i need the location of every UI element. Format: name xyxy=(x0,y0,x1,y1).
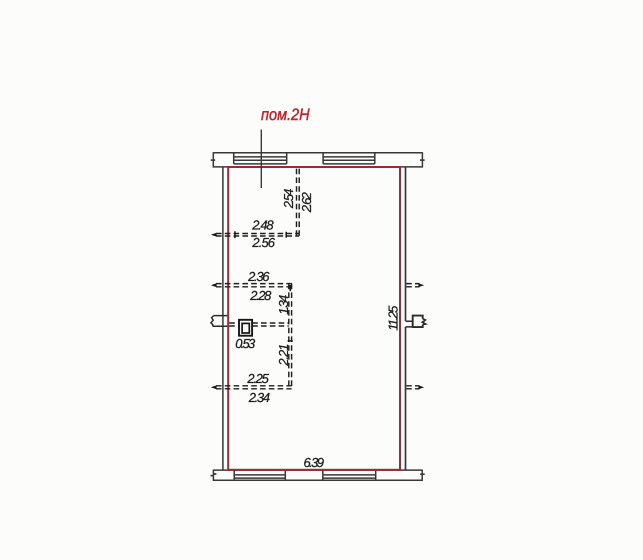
svg-text:2.62: 2.62 xyxy=(299,191,314,213)
tick on partition mid xyxy=(288,340,293,342)
svg-text:2.28: 2.28 xyxy=(249,288,272,303)
dimension texts xyxy=(235,189,401,471)
bottom wall left end tick xyxy=(211,474,217,476)
left wall line xyxy=(222,168,224,470)
arrow left 2.36 xyxy=(211,283,217,287)
svg-text:2.48: 2.48 xyxy=(251,217,274,232)
svg-text:2.56: 2.56 xyxy=(251,235,275,250)
niche in left wall xyxy=(211,316,229,327)
svg-text:0.53: 0.53 xyxy=(235,336,256,351)
right stub at 2.25 level xyxy=(406,386,419,389)
right wall line xyxy=(405,168,407,470)
bottom wall band outline xyxy=(213,470,422,482)
arrow right at 2.25 level xyxy=(418,385,424,389)
top wall left end tick xyxy=(211,159,216,161)
dimension ticks xyxy=(235,231,293,341)
tick on 2.48 line near wall xyxy=(234,231,236,238)
svg-text:1.34: 1.34 xyxy=(276,295,291,315)
dashed partition 2.54/2.62 xyxy=(297,169,300,236)
niche in right wall xyxy=(406,316,426,328)
arrow left 2.48 xyxy=(211,233,217,237)
top wall right end tick xyxy=(420,159,425,161)
top wall band outline xyxy=(213,152,422,167)
svg-text:2.36: 2.36 xyxy=(247,269,270,284)
tick at partition top corner xyxy=(289,285,291,291)
svg-text:2.54: 2.54 xyxy=(281,189,296,210)
tick on 2.48 line right xyxy=(285,232,287,238)
red premise outline xyxy=(228,167,400,470)
dashed partition 1.34/2.21 xyxy=(289,284,292,389)
dim line 2.25/2.34 xyxy=(216,386,292,389)
duct box right wall xyxy=(413,316,423,328)
window W3 bottom wall xyxy=(234,470,285,480)
dimension arrows xyxy=(211,233,424,389)
window W2 top wall xyxy=(323,153,375,164)
leader line xyxy=(260,130,262,189)
arrow left 2.25 xyxy=(211,385,217,389)
break zigzag left niche xyxy=(211,316,214,327)
window W4 bottom wall xyxy=(323,470,376,480)
ventilation duct symbol xyxy=(239,320,252,336)
svg-text:2.25: 2.25 xyxy=(246,371,269,386)
dim line 2.36/2.28 xyxy=(216,284,292,287)
svg-text:пом.2Н: пом.2Н xyxy=(261,106,310,124)
break zigzag right niche xyxy=(422,319,425,325)
dashed double lines xyxy=(216,169,420,389)
duct line right xyxy=(252,323,289,326)
dim line 2.48/2.56 xyxy=(216,234,299,237)
svg-text:11.25: 11.25 xyxy=(386,305,401,331)
window W1 top wall xyxy=(234,153,287,164)
arrow right at 2.36 level xyxy=(418,283,424,287)
svg-text:2.21: 2.21 xyxy=(276,344,291,367)
right stub at 2.36 level xyxy=(406,284,419,287)
bottom wall right end tick xyxy=(420,473,425,475)
svg-text:6.39: 6.39 xyxy=(303,455,324,470)
svg-text:2.34: 2.34 xyxy=(248,390,270,405)
duct line left xyxy=(229,323,239,326)
